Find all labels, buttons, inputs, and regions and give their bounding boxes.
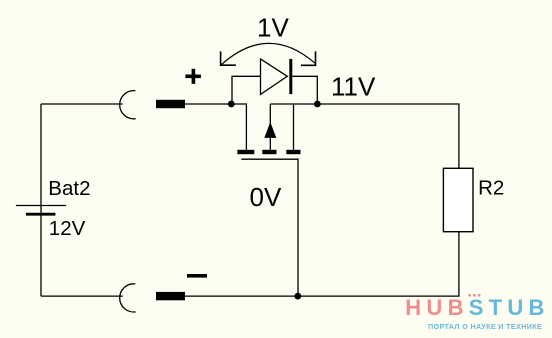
connector J2 pin bar (bottom) (156, 292, 185, 300)
connector J2 socket arc (bottom) (120, 284, 136, 312)
measurement arc right arrowhead (301, 51, 316, 65)
battery Bat2 bottom plate (26, 213, 55, 216)
wire: top pin to node A and corner down to Q1 drain (185, 104, 246, 150)
transistor Q1 body bar (262, 150, 276, 154)
wire: Q1 source stub (293, 104, 295, 150)
wire: diode D1 anode branch up from node A (232, 76, 261, 104)
wire: bottom-left horizontal to connector J2 (41, 295, 123, 297)
svg-text:HUBSTUB: HUBSTUB (405, 295, 549, 320)
svg-text:1V: 1V (257, 12, 289, 42)
svg-text:0V: 0V (250, 182, 282, 212)
minus label at bottom connector (187, 274, 207, 278)
svg-text:11V: 11V (331, 72, 376, 102)
resistor R2 body (443, 168, 473, 231)
transistor Q1 drain bar (237, 150, 254, 154)
wire: Q1 body stub down through arrow (269, 104, 271, 150)
connector J1 socket arc (top) (120, 91, 136, 119)
wire: battery left branch (top-left corner down to bottom-left corner) (40, 104, 42, 296)
node B junction dot (314, 101, 321, 108)
node C junction dot (gate to bottom bus) (294, 293, 301, 300)
battery Bat2 top plate (16, 205, 66, 207)
measurement arc for 1V across diode (221, 43, 315, 64)
svg-text:R2: R2 (478, 176, 504, 199)
transistor Q1 body arrow (264, 122, 276, 138)
diode D1 cathode bar (289, 59, 292, 94)
wire: Q1 top bus from body stub to node B then right and down to R2 (270, 104, 459, 168)
wire: Q1 gate line and drop to bottom node (241, 159, 298, 296)
svg-text:Bat2: Bat2 (48, 177, 90, 200)
transistor Q1 source bar (286, 150, 300, 154)
diode D1 triangle (261, 59, 288, 95)
measurement arc left arrowhead (221, 51, 236, 65)
svg-text:ПОРТАЛ О НАУКЕ И ТЕХНИКЕ: ПОРТАЛ О НАУКЕ И ТЕХНИКЕ (428, 322, 542, 331)
plus label at top connector (185, 69, 201, 84)
wire: diode D1 cathode branch down to node B (292, 76, 317, 104)
svg-text:12V: 12V (49, 217, 86, 240)
wire: top-left horizontal to connector J1 (41, 103, 123, 105)
node A junction dot (228, 101, 235, 108)
connector J1 pin bar (top) (156, 100, 185, 108)
hubstub logo dots (468, 294, 480, 297)
wire: bottom bus from R2 to connector pin (185, 232, 459, 296)
